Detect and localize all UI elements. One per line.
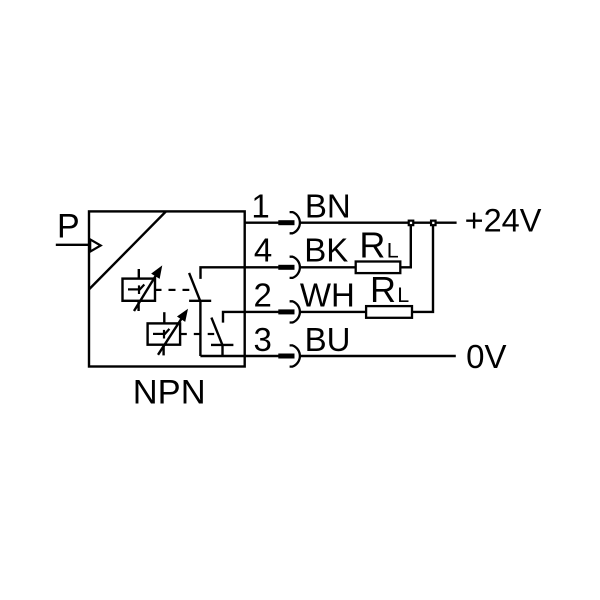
switch S1 top wire xyxy=(201,267,245,279)
svg-text:RL: RL xyxy=(359,225,398,266)
pressure sensor B1 inner line xyxy=(128,288,140,290)
pressure sensor B1 top port stub xyxy=(138,269,140,279)
switch S2 fixed contact T-bar xyxy=(211,344,233,346)
junction node 2 xyxy=(431,221,436,226)
0V rail inside box xyxy=(200,355,244,357)
pressure sensor B2 body xyxy=(148,323,181,344)
svg-text:4: 4 xyxy=(254,232,272,269)
dashed actuation link 1 xyxy=(155,289,189,291)
pressure sensor B2 adjustment arrow head xyxy=(179,312,186,320)
pin 3 lead wire xyxy=(245,355,279,357)
pin 1 contact pin bar xyxy=(278,220,294,225)
pin 2 socket arc xyxy=(290,301,300,322)
wire BU to 0V xyxy=(300,355,456,357)
svg-text:RL: RL xyxy=(370,269,409,310)
switch S1 bottom wire xyxy=(199,301,201,356)
switch S2 top wire xyxy=(223,312,245,323)
resistor RL2 body xyxy=(366,306,412,318)
pin 2 lead wire xyxy=(245,311,279,313)
wire BN to +24V xyxy=(300,221,456,223)
junction node 1 xyxy=(409,221,414,226)
pressure sensor B2 adjustment arrow shaft xyxy=(158,318,182,355)
pressure sensor B2 bottom port stub xyxy=(162,345,164,356)
svg-text:1: 1 xyxy=(251,187,269,224)
resistor RL1 body xyxy=(356,262,401,274)
svg-text:BK: BK xyxy=(304,232,348,269)
wire RL1 to +24V node xyxy=(400,223,411,268)
pin 1 lead wire xyxy=(245,221,279,223)
pin 3 contact pin bar xyxy=(278,354,294,359)
svg-text:NPN: NPN xyxy=(133,373,206,411)
switch S1 contact arm xyxy=(189,273,200,302)
svg-text:BU: BU xyxy=(305,321,351,358)
svg-text:3: 3 xyxy=(254,321,272,358)
svg-text:0V: 0V xyxy=(466,338,506,375)
wire WH to resistor xyxy=(300,311,366,313)
pressure sensor B2 top port stub xyxy=(163,312,165,323)
pressure sensor B1 bottom port stub xyxy=(137,301,139,311)
switch S2 bottom wire xyxy=(221,345,223,356)
wire RL2 to +24V node xyxy=(412,223,433,312)
pressure sensor B1 inner stop bar xyxy=(138,285,140,294)
pin 2 contact pin bar xyxy=(278,309,294,314)
wire P input xyxy=(56,244,89,246)
pressure sensor B1 adjustment arrow shaft xyxy=(134,275,156,311)
switch S2 contact arm xyxy=(211,318,222,346)
dashed actuation link 2 xyxy=(180,333,214,335)
pressure sensor B2 inner line xyxy=(153,333,165,335)
svg-text:2: 2 xyxy=(254,277,272,314)
arrowhead P xyxy=(90,239,101,251)
svg-text:P: P xyxy=(57,207,80,245)
pressure sensor B1 body xyxy=(123,279,156,301)
pin 4 socket arc xyxy=(290,257,300,278)
pressure sensor B1 adjustment arrow head xyxy=(153,268,160,277)
pressure sensor B1 inner arrow xyxy=(139,285,144,290)
sensor box xyxy=(89,211,245,366)
diagonal divider xyxy=(89,211,166,289)
pressure sensor B2 inner arrow xyxy=(165,329,170,335)
pin 1 socket arc xyxy=(290,212,300,233)
switch S1 fixed contact T-bar xyxy=(189,300,211,302)
pin 3 socket arc xyxy=(290,345,300,366)
pin 4 contact pin bar xyxy=(278,265,294,270)
pressure sensor B2 inner stop bar xyxy=(163,330,165,339)
pin 4 lead wire xyxy=(245,266,279,268)
wire BK to resistor xyxy=(300,266,355,268)
svg-text:BN: BN xyxy=(305,187,351,224)
svg-text:WH: WH xyxy=(300,277,355,314)
svg-text:+24V: +24V xyxy=(465,203,542,239)
